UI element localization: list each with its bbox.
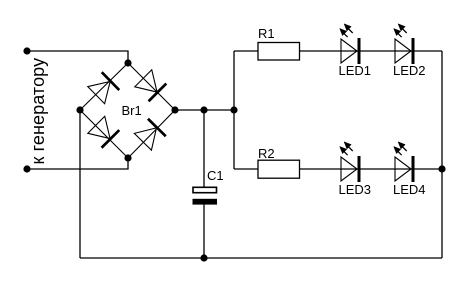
- resistor R2: [258, 160, 300, 178]
- svg-text:LED3: LED3: [339, 182, 372, 197]
- wire bottom rail: [80, 257, 442, 259]
- svg-text:к генератору: к генератору: [28, 58, 48, 165]
- junction branch riser: [230, 106, 237, 113]
- svg-text:C1: C1: [207, 168, 224, 183]
- svg-text:R2: R2: [258, 146, 275, 161]
- wire bottom branch: [234, 168, 442, 170]
- junction C1 top: [200, 106, 207, 113]
- bridge rectifier Br1 diamond: [80, 63, 175, 158]
- wire C1 top lead: [203, 110, 205, 188]
- junction right rail: [438, 165, 445, 172]
- terminal dot top input: [23, 47, 30, 54]
- junction C1 bottom: [200, 254, 207, 261]
- diode Br1 top-right: [134, 69, 166, 101]
- terminal dot bottom input: [23, 165, 30, 172]
- svg-text:LED4: LED4: [393, 182, 426, 197]
- LED LED3: [340, 142, 359, 182]
- wire top generator lead: [27, 51, 128, 63]
- capacitor C1 top plate: [193, 187, 217, 192]
- wire positive rail: [175, 109, 234, 111]
- diode Br1 bottom-left: [87, 116, 119, 148]
- node right positive: [171, 106, 178, 113]
- wire top branch: [234, 50, 442, 52]
- LED LED2: [394, 24, 413, 64]
- svg-text:R1: R1: [258, 26, 275, 41]
- diode Br1 bottom-right: [134, 119, 166, 151]
- wire C1 bottom lead: [203, 205, 205, 259]
- LED LED4: [394, 142, 413, 182]
- resistor R1: [258, 43, 300, 61]
- svg-text:LED1: LED1: [339, 63, 372, 78]
- wire bottom generator lead: [27, 158, 128, 169]
- svg-text:LED2: LED2: [393, 63, 426, 78]
- wire branch riser: [233, 51, 235, 169]
- svg-text:Br1: Br1: [122, 103, 142, 118]
- wire right rail: [441, 51, 443, 258]
- node left negative: [76, 106, 83, 113]
- node top AC: [124, 59, 131, 66]
- LED LED1: [340, 24, 359, 64]
- node bottom AC: [124, 154, 131, 161]
- diode Br1 top-left: [87, 72, 119, 104]
- wire bridge negative descender: [79, 110, 81, 258]
- capacitor C1 bottom plate: [193, 199, 218, 205]
